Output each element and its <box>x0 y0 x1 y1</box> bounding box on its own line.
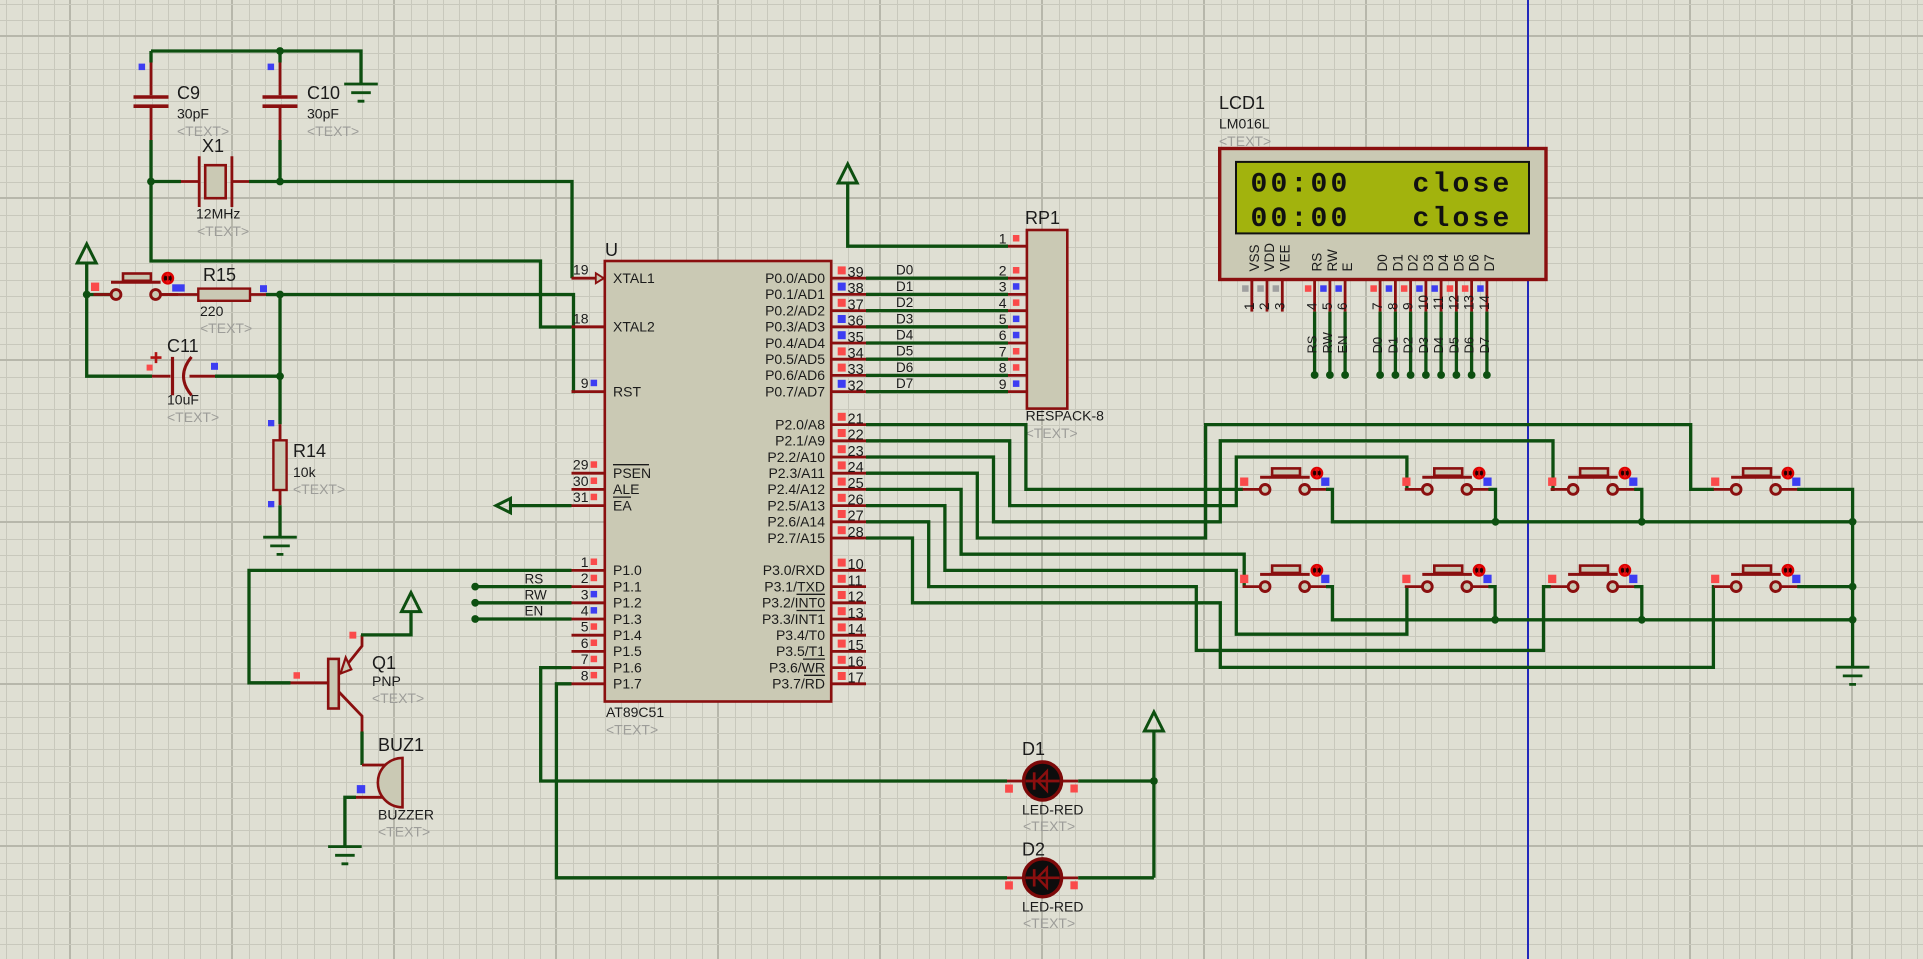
resistor pack RP1 body <box>1027 230 1067 409</box>
svg-text:R14: R14 <box>293 441 326 461</box>
pin 15 P3.5/T1 <box>831 650 866 653</box>
wire LCD D1 net <box>1394 312 1397 375</box>
push button keypad row1 button 4 <box>1714 488 1799 491</box>
wire LCD D2 net <box>1409 312 1412 375</box>
svg-text:RP1: RP1 <box>1025 208 1060 228</box>
wire P2.1 to keypad <box>866 441 1407 506</box>
push button keypad row2 button 7 <box>1551 585 1636 588</box>
svg-text:D0: D0 <box>896 263 913 278</box>
LCD screen <box>1236 162 1529 234</box>
svg-text:23: 23 <box>848 444 864 460</box>
wire R15 node down to R14 <box>278 295 281 425</box>
svg-text:D2: D2 <box>1401 337 1416 354</box>
svg-text:30pF: 30pF <box>177 106 209 122</box>
svg-text:36: 36 <box>848 314 864 330</box>
LED D1 <box>1005 762 1078 800</box>
svg-text:P3.0/RXD: P3.0/RXD <box>763 562 825 578</box>
svg-text:4: 4 <box>999 295 1007 311</box>
pin 7 P1.6 <box>572 666 605 669</box>
RP1 pin 1 <box>1008 245 1027 248</box>
svg-text:close: close <box>1413 170 1513 201</box>
svg-text:EN: EN <box>1335 335 1350 353</box>
svg-text:9: 9 <box>999 376 1007 392</box>
svg-text:P1.2: P1.2 <box>613 595 642 611</box>
svg-text:14: 14 <box>1477 294 1492 310</box>
ground (below R14) <box>263 537 297 554</box>
pin 3 P1.2 <box>572 601 605 604</box>
svg-text:PNP: PNP <box>372 673 401 689</box>
svg-text:D1: D1 <box>1390 254 1405 271</box>
LCD pin 2 VDD <box>1257 280 1267 312</box>
svg-text:D1: D1 <box>896 279 913 294</box>
svg-text:VEE: VEE <box>1277 244 1292 271</box>
svg-text:close: close <box>1413 204 1513 235</box>
push button keypad row2 button 5 <box>1243 585 1328 588</box>
pin 32 P0.7/AD7 <box>831 390 866 393</box>
pin 21 P2.0/A8 <box>831 423 866 426</box>
wire D5 P0.5 to RP1 <box>866 358 1008 361</box>
svg-text:RS: RS <box>1305 335 1320 353</box>
svg-text:32: 32 <box>848 378 864 394</box>
wire D2 P0.2 to RP1 <box>866 309 1008 312</box>
pin 33 P0.6/AD6 <box>831 374 866 377</box>
svg-text:P1.4: P1.4 <box>613 627 642 643</box>
pin 26 P2.5/A13 <box>831 504 866 507</box>
wire button8 right to rail <box>1797 585 1852 588</box>
svg-text:P2.6/A14: P2.6/A14 <box>767 514 825 530</box>
svg-text:10: 10 <box>1416 295 1431 310</box>
LCD pin 13 D6 <box>1462 280 1472 312</box>
buzzer BUZ1 <box>356 758 403 807</box>
ground (keypad) <box>1836 667 1870 684</box>
svg-text:D5: D5 <box>1451 254 1466 271</box>
power symbol VCC (Q1) <box>402 593 421 612</box>
pin 35 P0.4/AD4 <box>831 342 866 345</box>
wire rail to D2 <box>1078 876 1154 879</box>
node D1 power rail <box>1150 777 1158 785</box>
svg-text:P3.2/INT0: P3.2/INT0 <box>762 595 825 611</box>
LCD pin 6 E <box>1335 280 1345 312</box>
svg-text:39: 39 <box>848 265 864 281</box>
push button keypad row1 button 3 <box>1551 488 1636 491</box>
wire D7 P0.7 to RP1 <box>866 390 1008 393</box>
RP1 pin 5 <box>1008 325 1027 328</box>
LCD pin 11 D4 <box>1431 280 1441 312</box>
svg-text:D0: D0 <box>1370 337 1385 354</box>
crystal X1 <box>181 156 249 207</box>
pin 22 P2.1/A9 <box>831 439 866 442</box>
pin 18 XTAL2 <box>572 325 605 328</box>
svg-text:LM016L: LM016L <box>1219 116 1270 132</box>
svg-text:XTAL1: XTAL1 <box>613 270 655 286</box>
wire keypad row1 common bus <box>1326 489 1853 521</box>
wire X1 left to XTAL2 route <box>151 182 572 328</box>
svg-text:29: 29 <box>573 457 589 473</box>
LCD pin 3 VEE <box>1273 280 1283 312</box>
svg-text:LCD1: LCD1 <box>1219 93 1265 113</box>
push button (reset) <box>94 293 179 296</box>
svg-text:D4: D4 <box>1431 337 1446 354</box>
LCD pin 8 D1 <box>1386 280 1396 312</box>
RP1 pin 4 <box>1008 309 1027 312</box>
pin 30 ALE <box>572 488 605 491</box>
wire LCD D6 net <box>1470 312 1473 375</box>
pin 4 P1.3 <box>572 618 605 621</box>
svg-text:Q1: Q1 <box>372 653 396 673</box>
pin 2 P1.1 <box>572 585 605 588</box>
svg-text:6: 6 <box>1335 302 1350 310</box>
ground (top right of C10) <box>344 84 378 101</box>
wire LCD D5 net <box>1455 312 1458 375</box>
wire D4 P0.4 to RP1 <box>866 341 1008 344</box>
svg-text:X1: X1 <box>202 136 224 156</box>
svg-text:P2.3/A11: P2.3/A11 <box>768 465 825 481</box>
svg-text:7: 7 <box>581 651 589 667</box>
svg-text:30pF: 30pF <box>307 106 339 122</box>
svg-text:D2: D2 <box>896 295 913 310</box>
capacitor C9 <box>134 51 169 140</box>
svg-text:<TEXT>: <TEXT> <box>378 824 430 840</box>
svg-text:38: 38 <box>848 281 864 297</box>
svg-text:P0.7/AD7: P0.7/AD7 <box>765 383 825 399</box>
svg-text:16: 16 <box>848 654 864 670</box>
wire EN net stub <box>475 617 571 620</box>
wire P2.5 to keypad <box>866 506 1407 635</box>
svg-text:D3: D3 <box>896 311 913 326</box>
RP1 pin 3 <box>1008 293 1027 296</box>
RP1 pin 2 <box>1008 277 1027 280</box>
EA input arrow <box>496 498 511 512</box>
svg-text:U: U <box>605 240 618 260</box>
svg-text:4: 4 <box>1305 302 1320 310</box>
svg-text:00:00: 00:00 <box>1251 170 1351 201</box>
svg-text:30: 30 <box>573 473 589 489</box>
wire C9 bottom <box>149 140 152 182</box>
LED D2 <box>1005 859 1078 897</box>
svg-text:3: 3 <box>999 279 1007 295</box>
svg-text:D3: D3 <box>1421 254 1436 271</box>
pin 10 P3.0/RXD <box>831 569 866 572</box>
svg-text:P0.6/AD6: P0.6/AD6 <box>765 367 825 383</box>
capacitor C10 <box>263 51 298 140</box>
LCD pin 4 RS <box>1305 280 1315 312</box>
svg-text:D1: D1 <box>1022 739 1045 759</box>
svg-text:E: E <box>1340 262 1355 271</box>
svg-text:D4: D4 <box>896 328 914 343</box>
svg-text:AT89C51: AT89C51 <box>606 704 664 720</box>
wire power to button <box>87 293 111 296</box>
wire button7 right to bus <box>1634 587 1642 620</box>
wire button3 right to bus <box>1634 489 1642 521</box>
svg-text:22: 22 <box>848 428 864 444</box>
pin 19 XTAL1 <box>572 277 605 280</box>
svg-text:D6: D6 <box>896 360 913 375</box>
LCD pin 7 D0 <box>1370 280 1380 312</box>
svg-text:BUZZER: BUZZER <box>378 807 434 823</box>
svg-text:7: 7 <box>999 343 1007 359</box>
svg-text:P0.1/AD1: P0.1/AD1 <box>765 286 825 302</box>
wire button6 right to bus <box>1488 587 1495 620</box>
svg-text:C10: C10 <box>307 83 340 103</box>
wire P2.4 to keypad <box>866 489 1244 586</box>
svg-text:28: 28 <box>848 525 864 541</box>
RP1 pin 6 <box>1008 342 1027 345</box>
pin 25 P2.4/A12 <box>831 488 866 491</box>
svg-text:10k: 10k <box>293 464 317 480</box>
svg-text:P1.0: P1.0 <box>613 562 642 578</box>
svg-text:17: 17 <box>848 671 864 687</box>
svg-text:5: 5 <box>581 619 589 635</box>
wire LCD EN net <box>1343 312 1346 375</box>
svg-text:11: 11 <box>848 573 863 589</box>
svg-text:2: 2 <box>1257 302 1272 310</box>
svg-text:12: 12 <box>1446 295 1461 310</box>
svg-text:00:00: 00:00 <box>1251 204 1351 235</box>
svg-text:<TEXT>: <TEXT> <box>197 223 249 239</box>
svg-text:9: 9 <box>1401 302 1416 310</box>
svg-text:P3.1/TXD: P3.1/TXD <box>764 578 825 594</box>
svg-text:D3: D3 <box>1416 337 1431 354</box>
svg-text:LED-RED: LED-RED <box>1022 802 1083 818</box>
svg-text:P2.7/A15: P2.7/A15 <box>767 530 825 546</box>
wire R15 to RST <box>266 295 574 392</box>
svg-text:15: 15 <box>848 638 864 654</box>
wire C9 top to C10 top to ground <box>151 51 361 84</box>
LCD pin 1 VSS <box>1242 280 1252 312</box>
pin 36 P0.3/AD3 <box>831 325 866 328</box>
svg-text:<TEXT>: <TEXT> <box>606 722 658 738</box>
wire keypad row2 common bus <box>1326 587 1853 620</box>
svg-text:<TEXT>: <TEXT> <box>1219 133 1271 149</box>
svg-text:P3.3/INT1: P3.3/INT1 <box>762 611 825 627</box>
svg-text:D5: D5 <box>1446 337 1461 354</box>
svg-text:11: 11 <box>1431 296 1446 310</box>
svg-text:C9: C9 <box>177 83 200 103</box>
push button keypad row2 button 8 <box>1714 585 1799 588</box>
svg-text:2: 2 <box>999 262 1007 278</box>
svg-text:19: 19 <box>573 262 589 278</box>
svg-text:P0.0/AD0: P0.0/AD0 <box>765 270 825 286</box>
svg-text:18: 18 <box>573 310 589 326</box>
pin 16 P3.6/WR <box>831 666 866 669</box>
wire D1 right to power rail <box>1078 779 1154 782</box>
wire C11 right to R14 node <box>190 375 216 378</box>
svg-text:P0.4/AD4: P0.4/AD4 <box>765 335 825 351</box>
svg-text:P1.3: P1.3 <box>613 611 642 627</box>
svg-text:RST: RST <box>613 383 641 399</box>
LCD pin 12 D5 <box>1447 280 1457 312</box>
svg-text:3: 3 <box>581 586 589 602</box>
pin 27 P2.6/A14 <box>831 520 866 523</box>
wire button2 right to bus <box>1488 489 1495 521</box>
sheet boundary line <box>1527 0 1529 959</box>
RP1 pin 9 <box>1008 390 1027 393</box>
svg-text:6: 6 <box>999 327 1007 343</box>
svg-text:RS: RS <box>1310 253 1325 272</box>
push button keypad row2 button 6 <box>1405 585 1490 588</box>
svg-text:5: 5 <box>999 311 1007 327</box>
wire LCD RW net <box>1328 312 1331 375</box>
wire LCD D0 net <box>1378 312 1381 375</box>
svg-text:31: 31 <box>573 489 589 505</box>
svg-text:RS: RS <box>525 571 544 586</box>
node C11 right <box>276 372 284 380</box>
wire LCD RS net <box>1313 312 1316 375</box>
wire D6 P0.6 to RP1 <box>866 374 1008 377</box>
svg-text:RESPACK-8: RESPACK-8 <box>1026 408 1105 424</box>
svg-text:D2: D2 <box>1406 254 1421 271</box>
LCD pin 10 D3 <box>1416 280 1426 312</box>
svg-text:8: 8 <box>581 667 589 683</box>
svg-text:14: 14 <box>848 622 864 638</box>
wire Q1 emitter to power <box>361 612 411 635</box>
svg-text:D6: D6 <box>1467 254 1482 271</box>
svg-text:P0.5/AD5: P0.5/AD5 <box>765 351 825 367</box>
svg-text:D7: D7 <box>1477 337 1492 354</box>
svg-text:25: 25 <box>848 476 864 492</box>
pin 14 P3.4/T0 <box>831 634 866 637</box>
wire D0 P0.0 to RP1 <box>866 277 1008 280</box>
power symbol VCC (LEDs) <box>1144 712 1163 731</box>
LCD pin 14 D7 <box>1477 280 1487 312</box>
LCD1 LM016L body <box>1220 149 1546 280</box>
resistor R15 <box>160 285 267 301</box>
svg-text:<TEXT>: <TEXT> <box>307 123 359 139</box>
power symbol VCC (reset circuit) <box>77 244 96 263</box>
svg-text:RW: RW <box>1325 249 1340 272</box>
svg-text:D0: D0 <box>1375 254 1390 271</box>
svg-text:BUZ1: BUZ1 <box>378 735 424 755</box>
wire LCD D7 net <box>1485 312 1488 375</box>
wire Q1 collector to buzzer <box>360 732 363 766</box>
push button keypad row1 button 2 <box>1405 488 1490 491</box>
power symbol VCC (RP1) <box>838 164 857 183</box>
svg-text:6: 6 <box>581 635 589 651</box>
svg-text:D6: D6 <box>1462 337 1477 354</box>
svg-text:5: 5 <box>1320 302 1335 310</box>
svg-text:P2.1/A9: P2.1/A9 <box>775 433 825 449</box>
svg-text:EN: EN <box>525 604 544 619</box>
RP1 pin 7 <box>1008 358 1027 361</box>
svg-text:<TEXT>: <TEXT> <box>167 409 219 425</box>
wire P2.6 to keypad <box>866 522 1551 651</box>
svg-text:21: 21 <box>848 411 864 427</box>
pin 11 P3.1/TXD <box>831 585 866 588</box>
transistor Q1 PNP <box>291 632 363 732</box>
pin 31 EA <box>572 504 605 507</box>
svg-text:D7: D7 <box>1482 254 1497 271</box>
svg-text:D5: D5 <box>896 344 913 359</box>
svg-text:D2: D2 <box>1022 840 1045 860</box>
IC U AT89C51 body <box>605 261 831 702</box>
svg-text:13: 13 <box>848 606 864 622</box>
svg-text:<TEXT>: <TEXT> <box>1026 425 1078 441</box>
pin 38 P0.1/AD1 <box>831 293 866 296</box>
svg-text:P1.5: P1.5 <box>613 643 642 659</box>
svg-text:LED-RED: LED-RED <box>1022 899 1083 915</box>
svg-text:8: 8 <box>999 360 1007 376</box>
svg-text:VSS: VSS <box>1247 244 1262 271</box>
svg-text:XTAL2: XTAL2 <box>613 319 655 335</box>
svg-text:<TEXT>: <TEXT> <box>293 481 345 497</box>
svg-text:<TEXT>: <TEXT> <box>372 690 424 706</box>
svg-text:PSEN: PSEN <box>613 465 651 481</box>
node X1 left <box>147 178 155 186</box>
wire LCD D3 net <box>1424 312 1427 375</box>
svg-text:<TEXT>: <TEXT> <box>200 320 252 336</box>
wire power to RP1 pin 1 <box>848 183 1008 246</box>
svg-text:P0.3/AD3: P0.3/AD3 <box>765 319 825 335</box>
svg-text:10uF: 10uF <box>167 392 199 408</box>
svg-text:P3.6/WR: P3.6/WR <box>769 659 825 675</box>
node reset rail <box>83 291 91 299</box>
svg-text:D1: D1 <box>1385 337 1400 354</box>
RP1 pin 8 <box>1008 374 1027 377</box>
svg-text:EA: EA <box>613 497 632 513</box>
svg-text:33: 33 <box>848 362 864 378</box>
pin 23 P2.2/A10 <box>831 456 866 459</box>
svg-text:3: 3 <box>1272 302 1287 310</box>
pin 6 P1.5 <box>572 650 605 653</box>
pin 5 P1.4 <box>572 634 605 637</box>
pin 9 RST <box>572 390 605 393</box>
svg-text:34: 34 <box>848 346 864 362</box>
svg-text:P3.5/T1: P3.5/T1 <box>776 643 825 659</box>
node R15 right <box>276 291 284 299</box>
svg-text:1: 1 <box>999 231 1007 247</box>
svg-text:9: 9 <box>581 375 589 391</box>
svg-text:4: 4 <box>581 603 589 619</box>
wire D1 P0.1 to RP1 <box>866 293 1008 296</box>
svg-text:37: 37 <box>848 297 864 313</box>
push button keypad row1 button 1 <box>1243 488 1328 491</box>
node C10 top junction <box>276 47 284 55</box>
pin 12 P3.2/INT0 <box>831 601 866 604</box>
svg-text:D4: D4 <box>1436 254 1451 272</box>
pin 1 P1.0 <box>572 569 605 572</box>
svg-text:13: 13 <box>1462 295 1477 310</box>
wire D3 P0.3 to RP1 <box>866 325 1008 328</box>
svg-text:VDD: VDD <box>1262 243 1277 272</box>
svg-text:P2.0/A8: P2.0/A8 <box>775 416 825 432</box>
wire button4 right to ground rail <box>1797 489 1852 667</box>
svg-text:RW: RW <box>525 588 548 603</box>
svg-text:D7: D7 <box>896 376 913 391</box>
svg-text:P2.5/A13: P2.5/A13 <box>767 497 825 513</box>
svg-text:P1.1: P1.1 <box>613 578 642 594</box>
wire RS net stub <box>475 585 571 588</box>
svg-text:220: 220 <box>200 303 224 319</box>
svg-text:1: 1 <box>1242 302 1257 310</box>
svg-text:ALE: ALE <box>613 481 639 497</box>
svg-text:P3.4/T0: P3.4/T0 <box>776 627 825 643</box>
pin 29 PSEN <box>572 472 605 475</box>
svg-text:27: 27 <box>848 509 864 525</box>
svg-text:24: 24 <box>848 460 864 476</box>
wire P2.0 to keypad <box>866 425 1243 490</box>
svg-text:10: 10 <box>848 557 864 573</box>
svg-text:26: 26 <box>848 492 864 508</box>
wire C10 bottom <box>278 140 281 182</box>
LCD pin 5 RW <box>1320 280 1330 312</box>
svg-text:8: 8 <box>1385 302 1400 310</box>
LCD pin 9 D2 <box>1401 280 1411 312</box>
pin 8 P1.7 <box>572 682 605 685</box>
svg-text:P2.4/A12: P2.4/A12 <box>767 481 825 497</box>
wire X1 right to XTAL1 route <box>151 182 572 279</box>
resistor R14 <box>268 420 287 507</box>
node X1 right / C10 bottom <box>276 178 284 186</box>
